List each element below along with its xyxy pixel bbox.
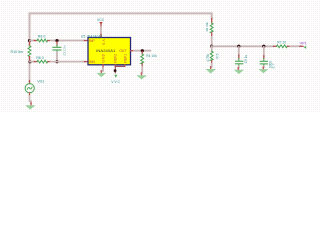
wire R7 to port bbox=[290, 45, 300, 47]
svg-text:INP: INP bbox=[89, 39, 95, 43]
svg-text:C1 1.5n: C1 1.5n bbox=[62, 45, 66, 55]
ground below VG1 bbox=[25, 105, 35, 109]
svg-text:INN: INN bbox=[89, 60, 95, 64]
ground below C7 bbox=[258, 69, 268, 73]
wire R6 rail segment left bbox=[30, 61, 34, 63]
wire VG1 to ground bbox=[30, 96, 32, 103]
wire left vertical between R10 and R6 rail bbox=[29, 57, 31, 82]
pin stub REF1 bbox=[124, 65, 126, 67]
ground below GND pin bbox=[96, 73, 106, 77]
wire R5 to ground bbox=[211, 64, 212, 67]
svg-text:VCC: VCC bbox=[97, 18, 105, 22]
capacitor C1 1.5n bbox=[56, 42, 58, 46]
node I junction (263.8,46.2) bbox=[262, 45, 265, 48]
svg-text:C7: C7 bbox=[272, 63, 276, 69]
resistor R4 10k bbox=[141, 52, 143, 55]
svg-text:OUT: OUT bbox=[119, 49, 126, 53]
grid background bbox=[0, 0, 320, 112]
ground below R5 bbox=[206, 69, 217, 74]
wire top rail from source to R9 bbox=[30, 13, 212, 40]
pin stub OUT bbox=[131, 50, 135, 52]
node G junction (211.7,46.2) bbox=[210, 45, 213, 48]
node D junction (57,61.7) bbox=[55, 60, 58, 63]
svg-text:VP1: VP1 bbox=[300, 41, 307, 45]
node E junction (142.3,50.7) bbox=[141, 49, 144, 52]
pin stub INN bbox=[85, 61, 89, 63]
net port VVC arrow bbox=[114, 75, 117, 78]
svg-text:R10 5m: R10 5m bbox=[11, 50, 24, 54]
svg-text:C5 1u: C5 1u bbox=[244, 54, 248, 63]
net port VP1 arrow bbox=[304, 46, 307, 49]
resistor R5 4.7k vertical bbox=[211, 47, 213, 51]
wire C7 to ground bbox=[262, 66, 265, 67]
svg-text:VS: VS bbox=[101, 39, 105, 46]
wire C5 to ground bbox=[237, 66, 240, 68]
wire R6 to INN bbox=[51, 61, 85, 63]
wire R8 to INP bbox=[51, 40, 85, 42]
node H junction (238.8,46.2) bbox=[237, 45, 240, 48]
capacitor C5 bbox=[238, 47, 240, 55]
svg-text:REF2: REF2 bbox=[114, 54, 118, 63]
resistor R8 0 bbox=[34, 40, 37, 42]
wire left vertical below junction A bbox=[29, 41, 31, 46]
pin stub REF2 bbox=[114, 65, 116, 67]
wire joining REF1 REF2 bbox=[115, 66, 124, 72]
pin stub INP bbox=[85, 40, 89, 42]
svg-text:GND: GND bbox=[102, 53, 106, 62]
svg-text:4.75k: 4.75k bbox=[206, 54, 210, 62]
capacitor C7 bbox=[263, 47, 265, 56]
node A junction (29.5,40.5) bbox=[28, 39, 31, 42]
wire VCC to VS pin bbox=[100, 27, 102, 34]
svg-text:REF1: REF1 bbox=[123, 54, 127, 63]
svg-text:R4 10k: R4 10k bbox=[146, 54, 157, 58]
pin stub GND wire below IC bbox=[102, 65, 104, 68]
node F wire end dot bbox=[114, 69, 117, 72]
svg-text:VG1: VG1 bbox=[37, 79, 44, 83]
pin stub VS bbox=[100, 34, 102, 37]
wire OUT dead-end bbox=[134, 50, 150, 52]
svg-text:R6 0: R6 0 bbox=[36, 56, 44, 60]
wire R9 to rail bbox=[211, 37, 213, 46]
voltage source VG1 bbox=[29, 81, 31, 84]
svg-text:R7 20: R7 20 bbox=[277, 41, 286, 45]
resistor R6 0 bbox=[34, 61, 37, 63]
resistor R10 vertical 5m shunt bbox=[29, 42, 31, 46]
wire R4 to ground bbox=[141, 67, 144, 74]
ground below R4 bbox=[136, 75, 147, 79]
svg-text:R5: R5 bbox=[215, 53, 219, 59]
resistor R7 20 bbox=[274, 45, 277, 47]
svg-text:R8 0: R8 0 bbox=[38, 35, 46, 39]
wire R8 rail segment left bbox=[30, 40, 34, 42]
node B junction (29.5,61.7) bbox=[28, 60, 31, 63]
wire C1 to R6 rail bbox=[56, 52, 58, 61]
svg-text:R9 10k: R9 10k bbox=[205, 22, 209, 32]
ground below C5 bbox=[234, 70, 244, 74]
op-amp U5 INA240A1 body bbox=[88, 38, 131, 65]
node C junction (57,40.5) bbox=[55, 39, 58, 42]
wire right rail bbox=[212, 45, 274, 47]
svg-text:VVC: VVC bbox=[111, 80, 121, 84]
svg-text:U5 INA240A1: U5 INA240A1 bbox=[81, 34, 103, 38]
resistor R9 10k vertical bbox=[211, 19, 213, 24]
svg-text:INA240A1: INA240A1 bbox=[96, 48, 116, 53]
